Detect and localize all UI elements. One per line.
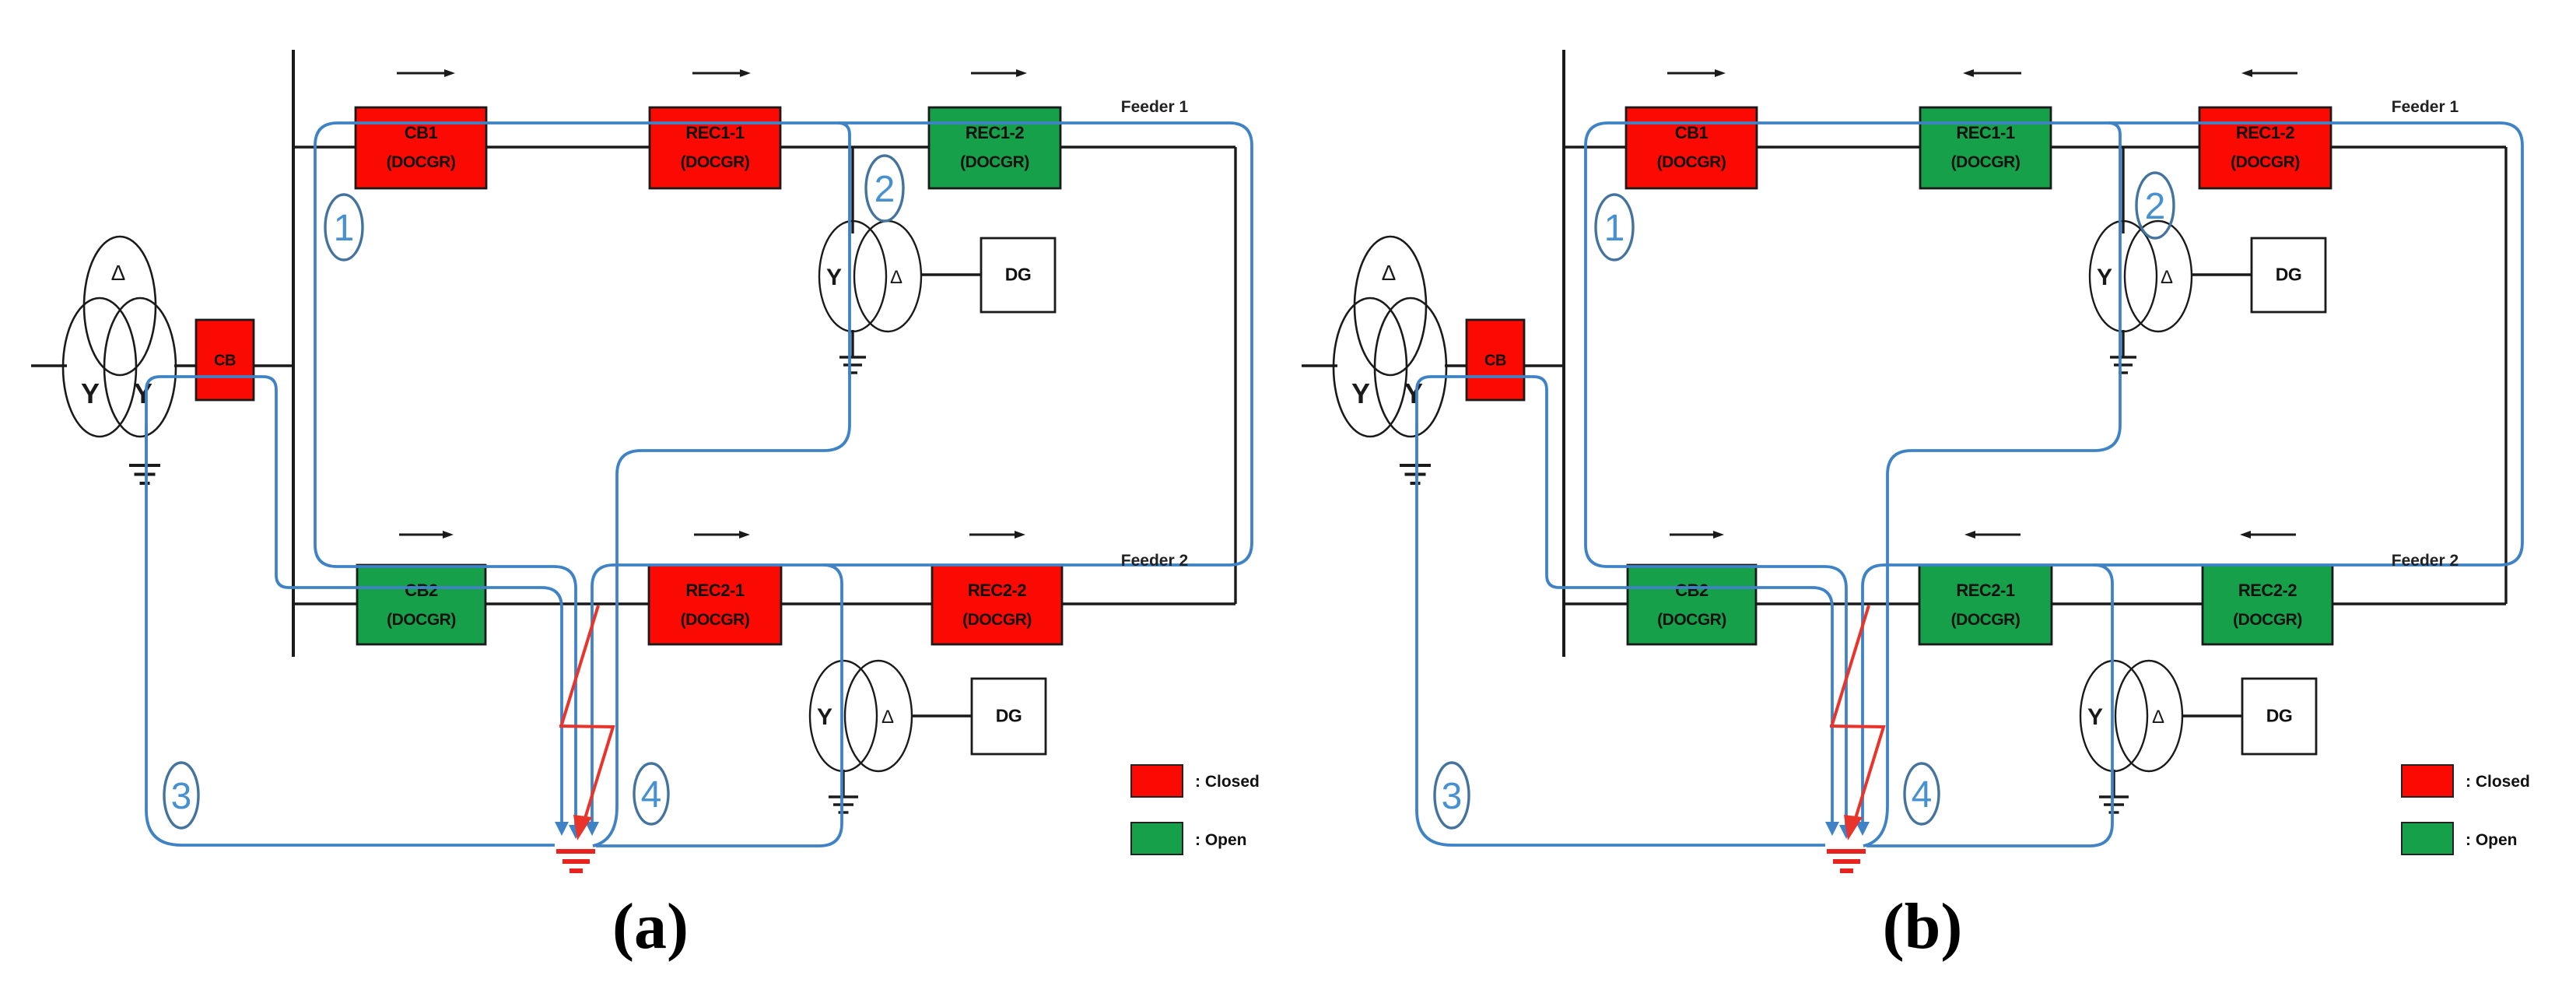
svg-text:1: 1 xyxy=(334,208,355,249)
svg-text:Y: Y xyxy=(817,704,832,730)
node 4 (b) xyxy=(1905,763,1939,824)
legend open (green) (b) xyxy=(2402,823,2518,854)
svg-text:(DOCGR): (DOCGR) xyxy=(962,611,1032,629)
svg-text:Y: Y xyxy=(2087,704,2103,730)
svg-text:(DOCGR): (DOCGR) xyxy=(1657,611,1726,629)
recloser REC1-2 (DOCGR) (b) xyxy=(2199,107,2331,188)
bus bar (vertical) (a) xyxy=(292,50,295,657)
svg-text:(DOCGR): (DOCGR) xyxy=(960,153,1029,171)
node 2 (a) xyxy=(866,156,903,221)
DG unit 1 (a) xyxy=(981,238,1055,312)
svg-text:REC2-1: REC2-1 xyxy=(1956,581,2015,600)
legend closed (red) (a) xyxy=(1131,765,1260,797)
svg-text:CB: CB xyxy=(1484,353,1506,370)
flow arrow above REC2-1 (b) xyxy=(1964,531,2020,539)
svg-text:Y: Y xyxy=(826,265,842,290)
svg-text:1: 1 xyxy=(1604,208,1625,249)
svg-text:: Closed: : Closed xyxy=(2466,773,2530,791)
wire: blue path through TR1 to fault (path 2) (a) xyxy=(593,123,850,846)
svg-text:(DOCGR): (DOCGR) xyxy=(387,153,456,171)
ground: fault (red) (b) xyxy=(1827,851,1866,871)
DG unit 1 (b) xyxy=(2252,238,2325,312)
transformer TR2 (Y-Delta) (a) xyxy=(810,661,912,771)
svg-text:Δ: Δ xyxy=(2161,267,2173,288)
recloser REC2-2 (DOCGR) (a) xyxy=(932,565,1062,644)
svg-text:Δ: Δ xyxy=(1382,261,1397,285)
flow arrow above REC1-1 (b) xyxy=(1963,69,2021,77)
svg-text:: Closed: : Closed xyxy=(1195,773,1260,791)
svg-text:: Open: : Open xyxy=(1195,831,1247,849)
wire: TR1-to-DG1 (a) xyxy=(921,273,982,275)
svg-text:CB2: CB2 xyxy=(1675,581,1709,600)
wire: transformer-to-bus through CB (b) xyxy=(1445,364,1565,367)
blue arrowhead into fault (left) (b) xyxy=(1825,822,1839,836)
svg-text:REC1-2: REC1-2 xyxy=(966,123,1025,142)
wire: feeder1-to-TR1 stem (b) xyxy=(2122,147,2124,233)
svg-text:3: 3 xyxy=(1442,776,1463,817)
wire: source stub (a) xyxy=(31,364,67,367)
svg-text:(DOCGR): (DOCGR) xyxy=(681,611,750,629)
svg-text:DG: DG xyxy=(1005,265,1032,285)
wire: blue path through TR1 to fault (path 2) (b) xyxy=(1863,123,2120,846)
fault lightning bolt (b) xyxy=(1830,605,1884,840)
recloser REC1-1 (DOCGR) (b) xyxy=(1920,107,2051,188)
svg-text:CB2: CB2 xyxy=(405,581,438,600)
svg-text:Y: Y xyxy=(2097,265,2112,290)
wire: TR2 ground stem (b) xyxy=(2112,770,2115,797)
svg-text:(DOCGR): (DOCGR) xyxy=(1951,153,2020,171)
circuit breaker CB2 (DOCGR) (a) xyxy=(357,565,485,644)
node 1 (b) xyxy=(1596,195,1633,260)
bus bar (vertical) (b) xyxy=(1562,50,1565,657)
svg-text:REC2-1: REC2-1 xyxy=(685,581,745,600)
wire: Feeder 1 line (a) xyxy=(293,146,1235,148)
recloser REC1-2 (DOCGR) (a) xyxy=(929,107,1060,188)
transformer TR-main (Delta-Y-Y) (a) xyxy=(63,237,176,437)
recloser REC1-1 (DOCGR) (a) xyxy=(650,107,780,188)
wire: blue loop feeder1 top + down to fault (paths 1,3) (b) xyxy=(1586,123,2522,825)
transformer TR1 (Y-Delta) (b) xyxy=(2090,221,2192,332)
svg-text:Y: Y xyxy=(81,377,100,409)
wire: Feeder 1 line (b) xyxy=(1564,146,2506,148)
flow arrow above REC2-2 (a) xyxy=(969,531,1025,539)
svg-text:DG: DG xyxy=(2276,265,2302,285)
wire: feeder1-to-TR1 stem (a) xyxy=(851,147,853,233)
blue arrowhead into fault (right) (b) xyxy=(1856,822,1870,836)
node 3 (a) xyxy=(164,763,198,828)
svg-text:2: 2 xyxy=(874,169,895,210)
flow arrow above REC1-2 (b) xyxy=(2241,69,2297,77)
transformer TR2 (Y-Delta) (b) xyxy=(2080,661,2182,771)
wire: TR2-to-DG2 (b) xyxy=(2182,714,2243,717)
svg-text:(DOCGR): (DOCGR) xyxy=(1951,611,2020,629)
wire: blue path through TR2 to fault (path 4) (a) xyxy=(596,565,842,846)
wire: feeder end tie (right vertical) (b) xyxy=(2504,147,2507,604)
fault lightning bolt (a) xyxy=(559,605,613,840)
wire: TR1-to-DG1 (b) xyxy=(2192,273,2252,275)
wire: main transformer ground stem (b) xyxy=(1415,424,1418,466)
DG unit 2 (b) xyxy=(2242,679,2316,754)
wire: blue loop feeder1 top + down to fault (paths 1,3) (a) xyxy=(315,123,1252,825)
circuit breaker CB (b) xyxy=(1467,320,1524,400)
svg-text:DG: DG xyxy=(2266,706,2293,726)
svg-text:CB: CB xyxy=(214,353,236,370)
DG unit 2 (a) xyxy=(972,679,1046,754)
wire: main transformer ground stem (a) xyxy=(145,424,147,466)
svg-text:REC1-1: REC1-1 xyxy=(1956,123,2015,142)
svg-text:(DOCGR): (DOCGR) xyxy=(2233,611,2302,629)
svg-text:REC2-2: REC2-2 xyxy=(968,581,1027,600)
circuit breaker CB1 (DOCGR) (a) xyxy=(356,107,486,188)
blue arrowhead into fault (left) (a) xyxy=(555,822,569,836)
ground: TR2 (b) xyxy=(2099,797,2129,812)
svg-text:(a): (a) xyxy=(612,890,689,963)
svg-text:(b): (b) xyxy=(1883,890,1963,963)
flow arrow above REC2-2 (b) xyxy=(2240,531,2296,539)
svg-text:Δ: Δ xyxy=(111,261,126,285)
svg-text:(DOCGR): (DOCGR) xyxy=(2231,153,2300,171)
ground: main transformer (b) xyxy=(1400,465,1431,483)
svg-text:REC1-1: REC1-1 xyxy=(685,123,745,142)
ground: TR2 (a) xyxy=(829,797,858,812)
transformer TR1 (Y-Delta) (a) xyxy=(819,221,921,332)
svg-text:REC1-2: REC1-2 xyxy=(2236,123,2295,142)
wire: Feeder 2 line (a) xyxy=(293,602,1235,605)
flow arrow above REC2-1 (a) xyxy=(694,531,750,539)
node 1 (a) xyxy=(325,195,363,260)
wire: TR2 ground stem (a) xyxy=(842,770,844,797)
svg-text:Feeder 2: Feeder 2 xyxy=(1121,552,1188,570)
svg-text:3: 3 xyxy=(171,776,192,817)
flow arrow above CB1 (a) xyxy=(397,69,455,77)
recloser REC2-1 (DOCGR) (a) xyxy=(649,565,781,644)
ground: main transformer (a) xyxy=(129,465,160,483)
ground: TR1 (b) xyxy=(2110,357,2136,373)
ground: fault (red) (a) xyxy=(556,851,595,871)
svg-text:CB1: CB1 xyxy=(405,123,438,142)
wire: blue path from CB around to fault (path 3 loop) (b) xyxy=(1417,377,1832,845)
blue arrowhead into fault (middle) (b) xyxy=(1839,825,1853,839)
svg-text:Feeder 1: Feeder 1 xyxy=(1121,98,1189,116)
legend closed (red) (b) xyxy=(2402,765,2530,797)
transformer TR-main (Delta-Y-Y) (b) xyxy=(1334,237,1446,437)
flow arrow above CB2 (b) xyxy=(1670,531,1724,539)
svg-text:Feeder 1: Feeder 1 xyxy=(2392,98,2459,116)
node 2 (b) xyxy=(2136,173,2174,238)
wire: Feeder 2 line (b) xyxy=(1564,602,2506,605)
circuit breaker CB (a) xyxy=(196,320,254,400)
svg-text:: Open: : Open xyxy=(2466,831,2518,849)
svg-text:4: 4 xyxy=(1912,774,1933,816)
wire: blue path from CB around to fault (path 3 loop) (a) xyxy=(146,377,562,845)
svg-text:Δ: Δ xyxy=(2152,707,2164,728)
svg-text:REC2-2: REC2-2 xyxy=(2238,581,2297,600)
svg-text:DG: DG xyxy=(996,706,1022,726)
flow arrow above REC1-1 (a) xyxy=(692,69,751,77)
svg-text:Δ: Δ xyxy=(881,707,894,728)
recloser REC2-1 (DOCGR) (b) xyxy=(1919,565,2052,644)
node 3 (b) xyxy=(1435,763,1469,828)
ground: TR1 (a) xyxy=(839,357,866,373)
recloser REC2-2 (DOCGR) (b) xyxy=(2203,565,2332,644)
circuit breaker CB1 (DOCGR) (b) xyxy=(1626,107,1757,188)
wire: TR2-to-DG2 (a) xyxy=(912,714,973,717)
blue arrowhead into fault (middle) (a) xyxy=(569,825,583,839)
svg-text:4: 4 xyxy=(641,774,662,816)
svg-text:(DOCGR): (DOCGR) xyxy=(681,153,750,171)
blue arrowhead into fault (right) (a) xyxy=(585,822,599,836)
wire: feeder end tie (right vertical) (a) xyxy=(1234,147,1236,604)
flow arrow above CB2 (a) xyxy=(399,531,454,539)
svg-text:Δ: Δ xyxy=(890,267,902,288)
flow arrow above CB1 (b) xyxy=(1667,69,1726,77)
flow arrow above REC1-2 (a) xyxy=(971,69,1027,77)
svg-text:(DOCGR): (DOCGR) xyxy=(1657,153,1726,171)
svg-text:Feeder 2: Feeder 2 xyxy=(2392,552,2459,570)
node 4 (a) xyxy=(634,763,668,824)
legend open (green) (a) xyxy=(1131,823,1247,854)
svg-text:(DOCGR): (DOCGR) xyxy=(387,611,456,629)
wire: TR1 ground stem (b) xyxy=(2122,330,2124,357)
wire: TR1 ground stem (a) xyxy=(851,330,853,357)
svg-text:Y: Y xyxy=(1351,377,1370,409)
svg-text:2: 2 xyxy=(2145,186,2166,227)
wire: transformer-to-bus through CB (a) xyxy=(174,364,294,367)
wire: blue path through TR2 to fault (path 4) (b) xyxy=(1866,565,2112,846)
svg-text:CB1: CB1 xyxy=(1675,123,1709,142)
wire: source stub (b) xyxy=(1302,364,1337,367)
circuit breaker CB2 (DOCGR) (b) xyxy=(1628,565,1756,644)
